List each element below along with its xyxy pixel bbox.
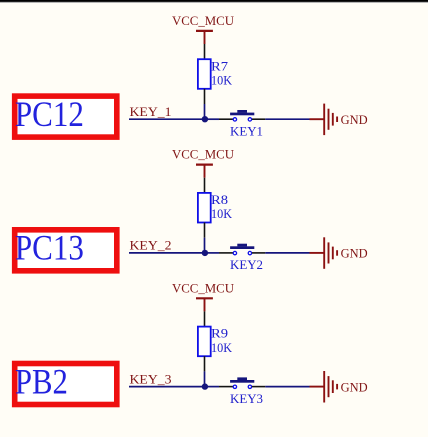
switch KEY2 pin 2 xyxy=(252,252,265,254)
svg-text:R9: R9 xyxy=(211,326,228,341)
resistor R7 body xyxy=(198,59,211,89)
wire: VCC stub to resistor R7 pin 1 xyxy=(204,44,206,59)
power port VCC_MCU (R7 row) xyxy=(196,31,213,44)
switch KEY1 bar xyxy=(230,113,254,116)
wire: horizontal from port PC12 to node KEY_1 xyxy=(129,118,205,120)
svg-text:GND: GND xyxy=(341,379,368,394)
port box PC13 xyxy=(15,230,117,271)
ground symbol (KEY1 row) xyxy=(310,104,338,136)
svg-text:10K: 10K xyxy=(211,340,233,355)
junction node KEY_1 xyxy=(202,116,208,122)
svg-text:R8: R8 xyxy=(211,192,228,207)
svg-text:PC12: PC12 xyxy=(15,94,84,134)
svg-text:KEY2: KEY2 xyxy=(230,257,263,272)
ground symbol (KEY2 row) xyxy=(310,237,338,268)
svg-text:10K: 10K xyxy=(211,72,233,87)
switch KEY3 pin 2 xyxy=(252,386,265,388)
wire: resistor R9 pin 2 down xyxy=(204,356,206,371)
port box PC12 xyxy=(15,96,117,137)
ground symbol (KEY3 row) xyxy=(310,371,338,403)
power port VCC_MCU (R9 row) xyxy=(196,298,213,311)
svg-text:10K: 10K xyxy=(211,206,233,221)
svg-text:KEY_2: KEY_2 xyxy=(130,238,172,253)
switch KEY3 pin 1 xyxy=(219,386,233,388)
title bar edge xyxy=(0,0,428,3)
switch KEY2 pin 1 xyxy=(219,252,233,254)
port box PB2 xyxy=(15,364,117,405)
wire: vertical to node KEY_2 xyxy=(204,238,206,253)
power port VCC_MCU (R8 row) xyxy=(196,165,213,178)
wire: vertical to node KEY_3 xyxy=(204,371,206,386)
wire: node KEY_1 to switch KEY1 xyxy=(205,118,219,120)
svg-text:KEY3: KEY3 xyxy=(230,391,263,406)
switch KEY2 plunger xyxy=(237,244,247,247)
wire: node KEY_2 to switch KEY2 xyxy=(205,252,219,254)
switch KEY3 contact right xyxy=(248,385,251,388)
svg-text:KEY_1: KEY_1 xyxy=(130,104,172,119)
svg-text:KEY_3: KEY_3 xyxy=(130,371,172,386)
svg-text:VCC_MCU: VCC_MCU xyxy=(172,280,235,295)
wire: horizontal from port PB2 to node KEY_3 xyxy=(129,386,205,388)
switch KEY1 contact left xyxy=(233,118,236,121)
switch KEY3 contact left xyxy=(233,385,236,388)
wire: switch KEY1 to ground xyxy=(265,118,309,120)
wire: node KEY_3 to switch KEY3 xyxy=(205,386,219,388)
resistor R8 body xyxy=(198,193,211,223)
wire: VCC stub to resistor R8 pin 1 xyxy=(204,178,206,193)
switch KEY1 pin 2 xyxy=(252,118,265,120)
switch KEY1 pin 1 xyxy=(219,118,233,120)
svg-text:GND: GND xyxy=(341,112,368,127)
svg-text:PB2: PB2 xyxy=(15,361,68,401)
svg-text:GND: GND xyxy=(341,246,368,261)
wire: resistor R8 pin 2 down xyxy=(204,223,206,238)
switch KEY2 contact left xyxy=(233,251,236,254)
svg-text:KEY1: KEY1 xyxy=(230,123,263,138)
switch KEY2 bar xyxy=(230,246,254,249)
wire: resistor R7 pin 2 down xyxy=(204,89,206,104)
switch KEY3 plunger xyxy=(237,377,247,380)
wire: horizontal from port PC13 to node KEY_2 xyxy=(129,252,205,254)
wire: switch KEY3 to ground xyxy=(265,386,309,388)
wire: switch KEY2 to ground xyxy=(265,252,309,254)
svg-text:R7: R7 xyxy=(211,58,229,73)
junction node KEY_3 xyxy=(202,383,208,389)
svg-text:PC13: PC13 xyxy=(15,228,84,268)
wire: vertical to node KEY_1 xyxy=(204,104,206,119)
switch KEY3 bar xyxy=(230,380,254,383)
resistor R9 body xyxy=(198,327,211,357)
switch KEY1 plunger xyxy=(237,110,247,113)
svg-text:VCC_MCU: VCC_MCU xyxy=(172,147,235,162)
junction node KEY_2 xyxy=(202,250,208,256)
svg-text:VCC_MCU: VCC_MCU xyxy=(172,13,235,28)
switch KEY2 contact right xyxy=(248,251,251,254)
wire: VCC stub to resistor R9 pin 1 xyxy=(204,311,206,326)
switch KEY1 contact right xyxy=(248,118,251,121)
